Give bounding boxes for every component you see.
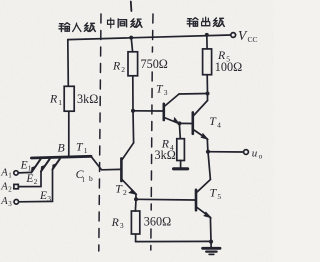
svg-text:3: 3	[47, 194, 51, 203]
svg-text:3: 3	[164, 88, 168, 97]
wire R4 bottom to ground	[180, 161, 182, 168]
svg-text:CC: CC	[248, 35, 258, 44]
resistor R2	[128, 52, 138, 76]
svg-text:1: 1	[84, 146, 88, 155]
resistor R4	[177, 139, 185, 161]
value 750Ω (R2)	[141, 57, 168, 71]
dashed boundary line 2	[151, 14, 154, 52]
svg-text:1: 1	[28, 164, 32, 173]
resistor R3	[131, 211, 139, 234]
svg-text:2: 2	[8, 186, 12, 194]
T1 emitter E3	[19, 159, 60, 202]
svg-text:3: 3	[8, 200, 12, 208]
svg-text:E: E	[20, 159, 28, 171]
label E2	[25, 173, 37, 186]
svg-text:2: 2	[34, 177, 38, 186]
svg-text:1: 1	[58, 98, 62, 107]
label C (T1 collector)	[76, 167, 93, 184]
svg-text:3kΩ: 3kΩ	[155, 148, 176, 162]
label T4	[209, 114, 221, 129]
svg-text:750Ω: 750Ω	[141, 57, 168, 71]
wire T4 collector up to node	[207, 94, 209, 101]
wire R1 bottom (R1 to T1 base)	[68, 111, 70, 156]
wire R3 to ground node	[136, 240, 211, 242]
svg-text:R: R	[49, 92, 58, 106]
wire T5 collector up to output node	[208, 152, 210, 180]
dashed boundary line 1	[99, 14, 101, 251]
label A1	[0, 168, 12, 180]
label uo	[252, 147, 263, 160]
svg-text:2: 2	[123, 188, 127, 197]
label VCC	[238, 28, 258, 44]
label E1	[20, 159, 32, 172]
svg-text:A: A	[0, 196, 8, 207]
node T2E/R3/T5B junction	[134, 197, 138, 201]
wire T2 collector up to node	[132, 111, 135, 143]
svg-text:3: 3	[120, 221, 124, 230]
wire R1 top (rail to R1)	[67, 40, 70, 87]
node ground junction	[209, 240, 213, 244]
ground (main)	[203, 242, 220, 255]
label A2	[0, 182, 12, 194]
label R4	[161, 137, 174, 152]
wire T2 emitter down to node	[135, 194, 137, 199]
svg-text:E: E	[39, 190, 47, 202]
svg-text:360Ω: 360Ω	[144, 214, 171, 228]
svg-text:3kΩ: 3kΩ	[77, 92, 98, 106]
label R3	[111, 215, 124, 230]
wire T4 emitter down to output node	[206, 139, 209, 152]
input terminal A3	[14, 200, 19, 205]
label R1	[49, 92, 62, 107]
value 3kΩ (R1)	[77, 92, 98, 106]
wire output node to terminal	[208, 151, 244, 153]
label T2	[115, 181, 127, 196]
svg-text:B: B	[58, 140, 65, 154]
label T3	[156, 82, 168, 97]
wire R3 bottom	[135, 235, 137, 242]
label R2	[112, 59, 125, 74]
svg-text:l: l	[82, 175, 84, 184]
transistor T5	[196, 180, 210, 218]
label R5	[217, 48, 230, 63]
transistor T4	[193, 101, 208, 140]
wire node to T4 base	[179, 122, 191, 124]
label E3	[39, 190, 51, 203]
resistor R5	[203, 49, 212, 75]
wire node to T3 base	[133, 110, 163, 112]
svg-text:1: 1	[8, 172, 12, 180]
label T5	[210, 186, 222, 201]
svg-text:R: R	[111, 215, 120, 229]
svg-text:A: A	[0, 182, 8, 193]
stray mark top edge	[130, 2, 133, 12]
ground (below R4)	[174, 167, 188, 170]
wire R4 top (node to R4)	[178, 123, 181, 138]
svg-text:5: 5	[217, 192, 221, 201]
node output junction	[206, 150, 210, 154]
wire node to T5 base	[136, 198, 195, 201]
node T3E/T4B/R4 junction	[177, 121, 181, 125]
value 3kΩ (R4)	[155, 148, 176, 162]
T1 emitter E1	[18, 159, 40, 173]
VCC terminal	[231, 33, 236, 38]
svg-text:4: 4	[217, 120, 221, 129]
svg-text:A: A	[0, 168, 8, 179]
svg-text:E: E	[25, 173, 33, 185]
wire rail to R2	[131, 38, 132, 52]
svg-text:2: 2	[121, 65, 125, 74]
wire T3 collector to node	[179, 93, 208, 96]
resistor R1	[64, 86, 74, 111]
svg-text:R: R	[112, 59, 121, 73]
output terminal uo	[244, 150, 249, 155]
stage label 输出级	[187, 17, 224, 26]
wire R5 bottom to node	[206, 75, 208, 94]
node R5/T3C/T4C junction	[206, 92, 210, 96]
wire rail to R5	[206, 35, 208, 49]
input terminal A2	[14, 184, 18, 188]
value 100Ω (R5)	[215, 60, 242, 74]
junction rail-R5	[205, 33, 209, 37]
transistor T1 multi-emitter base bar	[31, 156, 91, 158]
value 360Ω (R3)	[144, 214, 171, 228]
label T1	[76, 139, 88, 154]
label B (T1 base)	[58, 140, 65, 154]
input terminal A1	[14, 171, 18, 175]
node R2/T2C/T3B junction	[131, 109, 135, 113]
wire R2 bottom to node	[132, 76, 134, 111]
T1 emitter E2	[19, 159, 50, 187]
label A3	[0, 196, 12, 208]
junction rail-R2	[129, 36, 133, 40]
wire T5 emitter down to ground node	[209, 217, 212, 241]
svg-text:o: o	[259, 151, 263, 160]
svg-text:u: u	[252, 147, 258, 159]
stage label 输入级	[59, 23, 95, 32]
wire node down to R3	[134, 199, 137, 211]
stage label 中间级	[108, 18, 142, 28]
svg-text:100Ω: 100Ω	[215, 60, 242, 74]
transistor T3	[164, 94, 179, 123]
svg-text:b: b	[89, 174, 93, 183]
wire VCC rail	[68, 35, 231, 40]
T1 collector	[91, 156, 120, 170]
transistor T2	[121, 143, 135, 194]
